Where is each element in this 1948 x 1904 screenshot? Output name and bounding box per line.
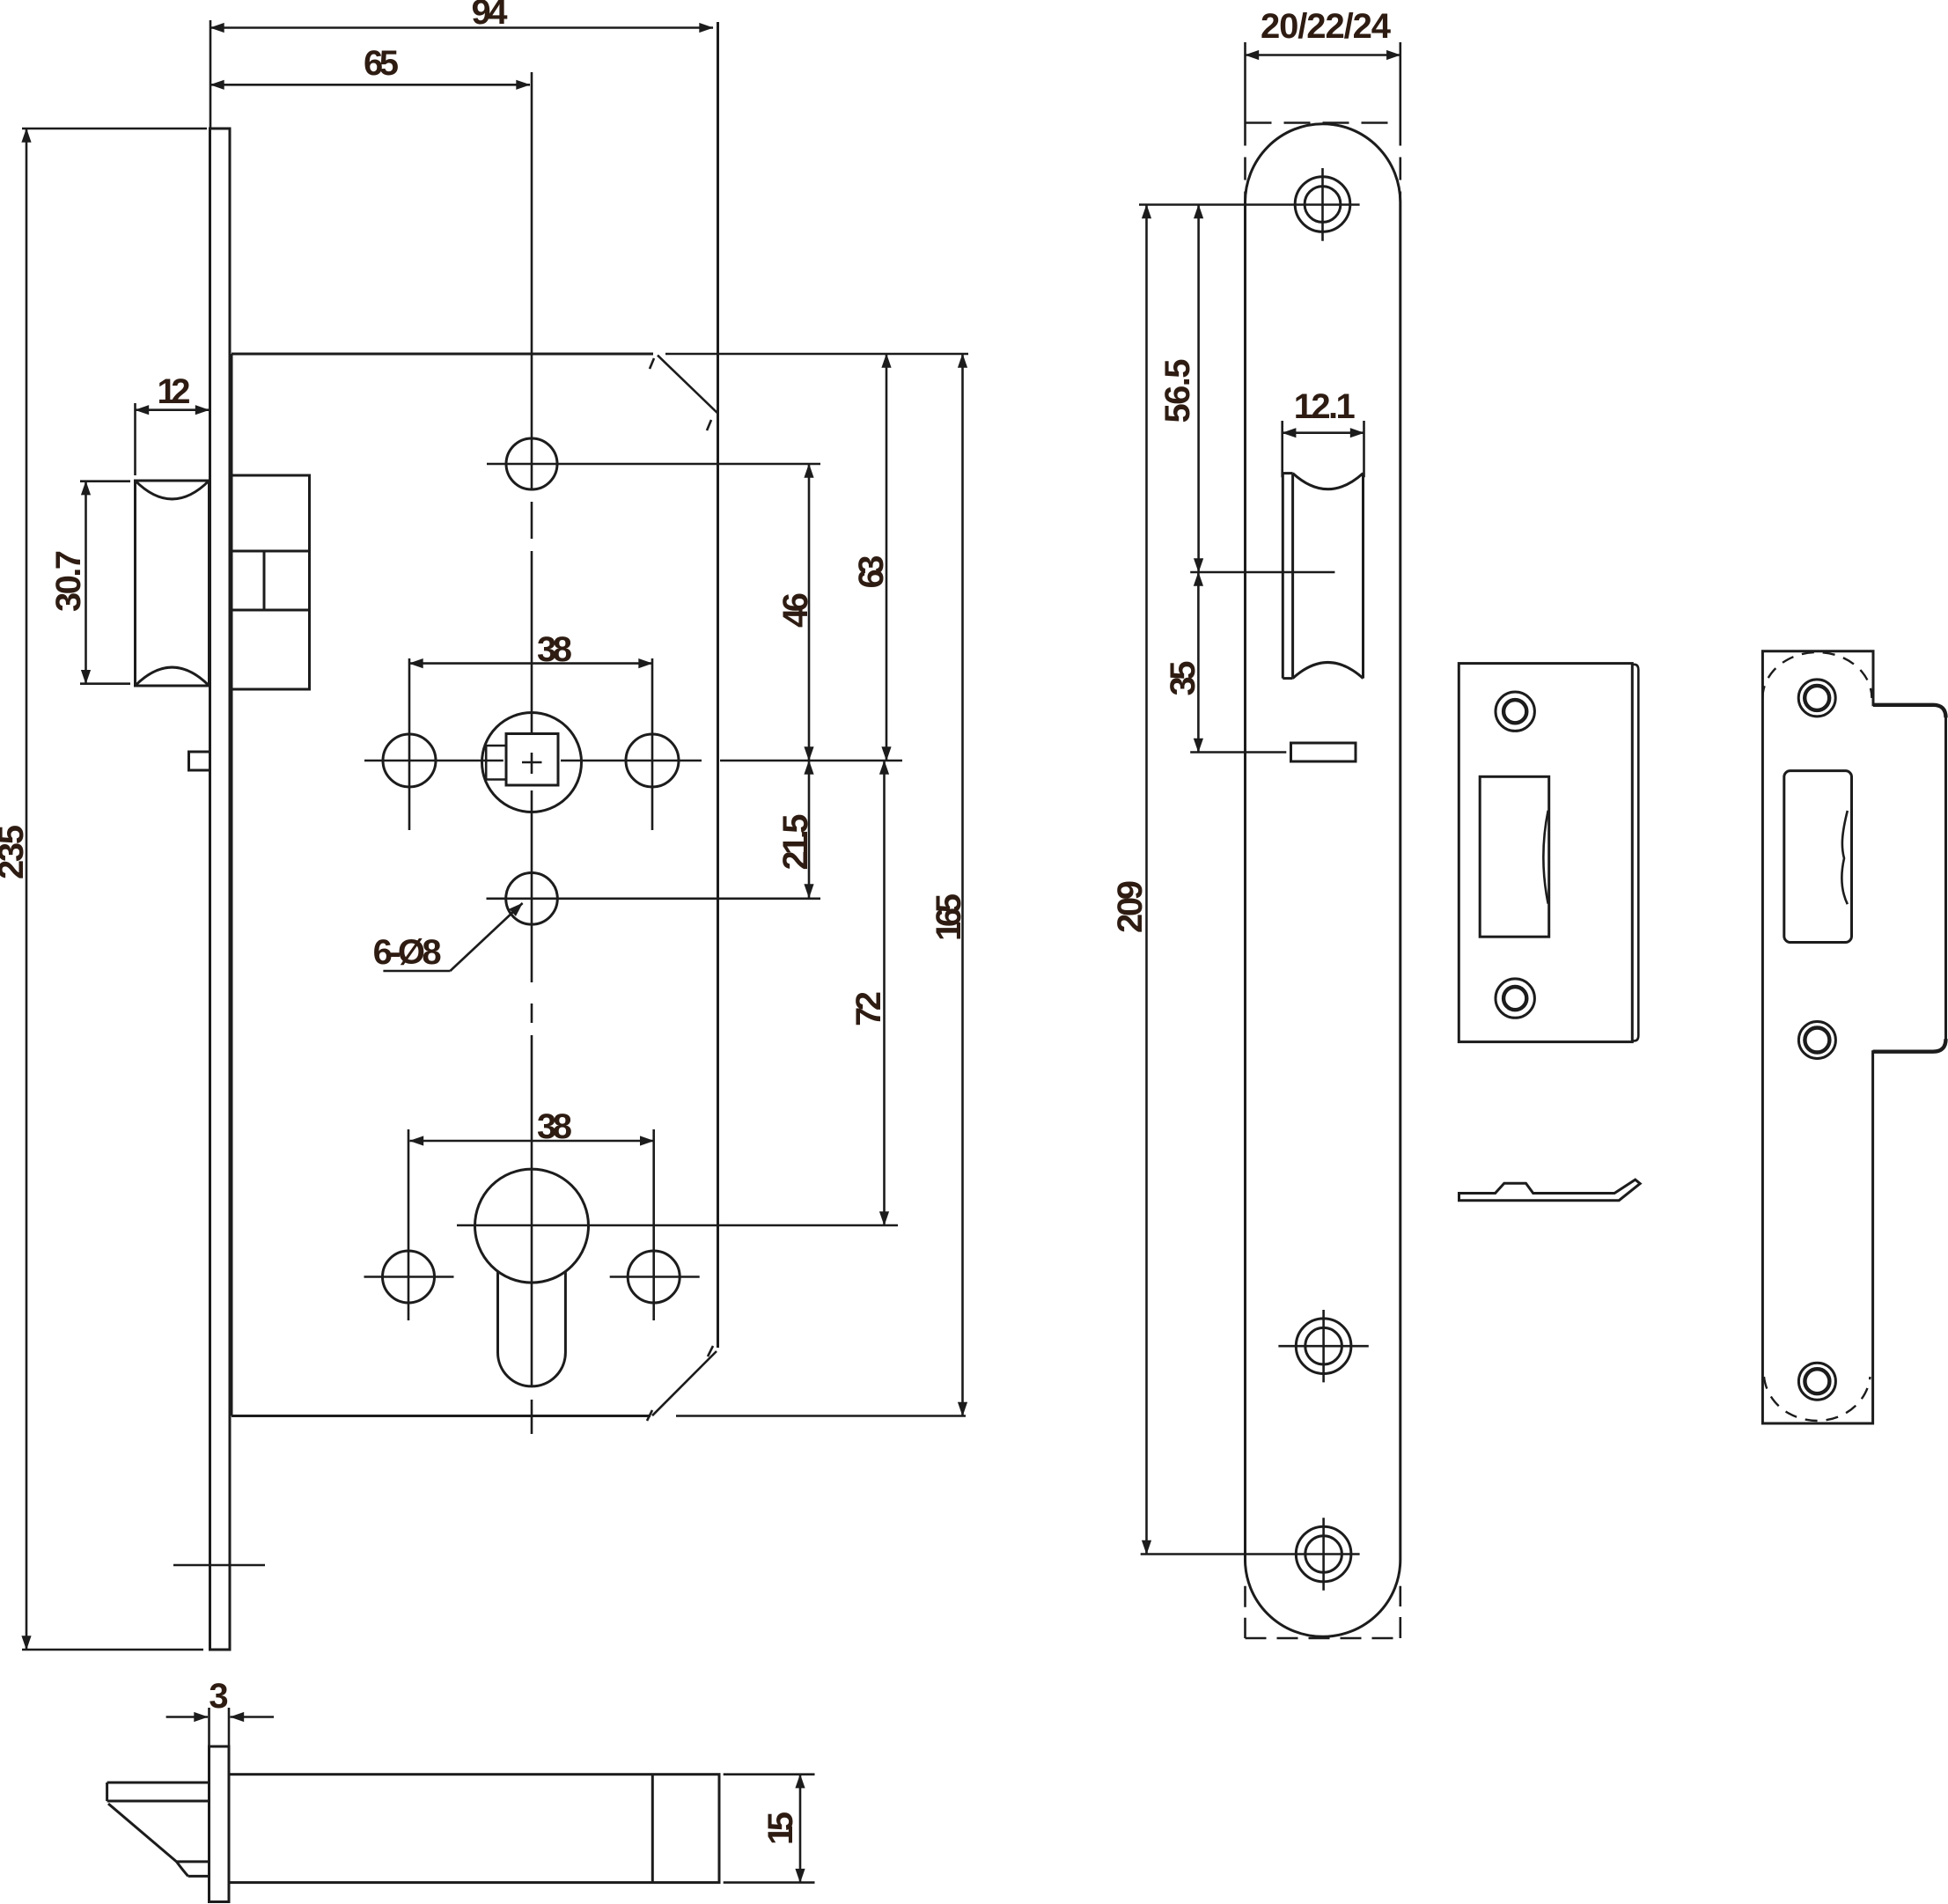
plate bottom screw hole: [1296, 1518, 1351, 1590]
plate latch center line: [1190, 571, 1334, 574]
strike plate lip curve: [1841, 811, 1848, 904]
dimension 15: [724, 1775, 815, 1883]
square end option bottom dashed: [1246, 1586, 1400, 1638]
dimension 65: [210, 84, 530, 86]
auxiliary bolt bump: [189, 752, 210, 770]
svg-text:46: 46: [776, 592, 815, 628]
svg-text:209: 209: [1111, 880, 1150, 933]
strike plate round-end option top dashed: [1762, 652, 1871, 698]
svg-text:12: 12: [158, 372, 191, 411]
case top edge extension: [665, 353, 968, 356]
cylinder left hole crosshair: [364, 1129, 454, 1320]
strike box edge thickness: [1632, 665, 1638, 1041]
svg-text:3: 3: [209, 1677, 228, 1716]
case top chamfer: [658, 356, 718, 414]
hub left hole vertical: [408, 658, 411, 830]
strike plate top screw hole: [1798, 680, 1835, 717]
svg-text:56.5: 56.5: [1158, 359, 1197, 423]
cylinder horizontal center line: [457, 1224, 898, 1227]
hub follower circle: [482, 713, 582, 812]
hub left hole: [383, 734, 436, 787]
main vertical center line: [531, 72, 533, 1434]
side faceplate: [210, 1746, 230, 1902]
hole below hub crosshair: [487, 897, 821, 900]
dimension 35: [1190, 572, 1286, 753]
strike plate middle screw hole: [1798, 1022, 1835, 1059]
dimension 94: [210, 20, 713, 129]
euro cylinder circle: [475, 1169, 589, 1283]
svg-text:20/22/24: 20/22/24: [1261, 7, 1392, 46]
svg-text:38: 38: [537, 630, 572, 669]
dimension 46: [808, 464, 811, 761]
svg-text:65: 65: [364, 44, 399, 83]
svg-text:72: 72: [849, 991, 888, 1026]
dimension 30.7: [80, 482, 130, 684]
dimension 21.5: [808, 761, 811, 898]
strike box latch opening: [1480, 776, 1549, 937]
svg-text:35: 35: [1164, 661, 1202, 696]
plate latch cutout: [1283, 474, 1363, 679]
svg-text:38: 38: [537, 1107, 572, 1146]
dimension 3: [166, 1708, 274, 1746]
dimension 165: [961, 354, 964, 1416]
svg-text:235: 235: [0, 825, 31, 879]
strike plate latch opening: [1784, 771, 1852, 943]
top chamfer tick 2: [707, 420, 711, 430]
bottom chamfer tick 1: [708, 1346, 713, 1356]
top chamfer tick 1: [650, 358, 654, 369]
hub center mark: [522, 753, 542, 774]
strike box latch lip curve: [1543, 811, 1547, 904]
bottom chamfer tick 2: [647, 1410, 652, 1421]
dimension 12: [136, 403, 210, 475]
cylinder left hole: [383, 1251, 435, 1303]
case bottom chamfer: [652, 1351, 717, 1415]
top hole: [506, 438, 557, 489]
bolt bar: [229, 1775, 719, 1883]
hub notch: [486, 746, 506, 780]
hub right hole vertical: [651, 658, 654, 830]
plate middle screw hole: [1278, 1310, 1368, 1382]
top hole crosshair: [487, 463, 820, 466]
svg-text:165: 165: [930, 893, 968, 941]
plate deadbolt slot: [1291, 743, 1356, 761]
dimension 235: [22, 129, 207, 1650]
svg-text:15: 15: [761, 1812, 800, 1845]
strike plate lip bold top edge: [1873, 705, 1946, 718]
svg-text:94: 94: [472, 0, 509, 32]
dimension 12.1: [1283, 421, 1364, 477]
faceplate outline: [1246, 124, 1400, 1637]
latch bolt front: [136, 481, 210, 686]
cylinder right hole: [628, 1251, 680, 1303]
case bottom edge: [232, 1415, 651, 1417]
case left edge: [231, 354, 233, 1416]
strike plate bottom screw hole: [1798, 1363, 1835, 1400]
dimension 72: [883, 761, 886, 1225]
case bottom edge extension: [676, 1415, 966, 1417]
svg-text:30.7: 30.7: [49, 550, 88, 612]
leader 6-O8: [383, 903, 522, 971]
dimension 20/22/24: [1246, 42, 1400, 202]
strike plate lip bold bottom edge: [1873, 1039, 1946, 1052]
strike box outline: [1459, 664, 1632, 1042]
plate top screw hole: [1295, 168, 1350, 241]
dimension 63: [886, 354, 888, 761]
dimension 38 upper: [409, 662, 652, 665]
svg-text:12.1: 12.1: [1294, 387, 1356, 426]
hub horizontal center line: [364, 760, 902, 762]
hole below hub: [506, 873, 558, 925]
hub right hole: [626, 734, 679, 787]
cylinder right hole crosshair: [610, 1129, 700, 1320]
svg-text:63: 63: [852, 555, 891, 589]
svg-text:21.5: 21.5: [776, 814, 815, 871]
hub square: [506, 734, 558, 786]
svg-text:6-Ø8: 6-Ø8: [373, 933, 442, 972]
dimension 38 lower: [410, 1140, 654, 1143]
latch housing in case: [232, 475, 310, 689]
bolt bar divider: [651, 1775, 654, 1883]
case top edge: [232, 353, 653, 356]
strike box bottom screw hole: [1496, 979, 1534, 1018]
faceplate bottom centerline tick: [173, 1564, 265, 1567]
strike box top screw hole: [1496, 692, 1534, 731]
dimension 56.5: [1197, 205, 1200, 573]
latch head side: [107, 1783, 210, 1876]
square end option top dashed: [1246, 121, 1400, 124]
dimension 209: [1139, 205, 1360, 1555]
case right edge with 94 extension: [717, 22, 719, 1348]
strike plate outline: [1762, 651, 1945, 1423]
strike plate round-end option bottom dashed: [1764, 1377, 1871, 1421]
faceplate: [210, 129, 231, 1650]
euro cylinder slot: [498, 1271, 566, 1386]
